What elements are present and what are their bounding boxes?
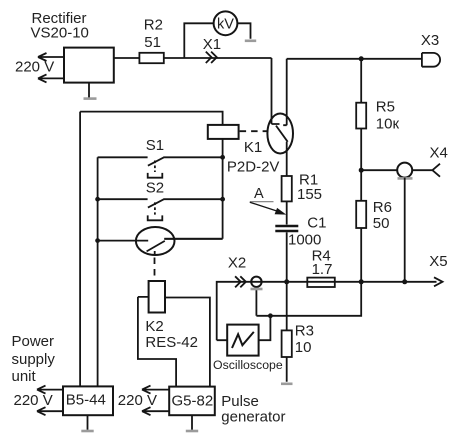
svg-text:K2: K2 [145,318,163,335]
svg-text:R6: R6 [373,199,392,216]
svg-text:C1: C1 [307,214,326,231]
svg-text:unit: unit [12,368,37,385]
svg-text:R2: R2 [144,16,163,33]
svg-text:10к: 10к [376,115,400,132]
svg-text:155: 155 [297,186,322,203]
svg-text:R5: R5 [376,99,395,116]
svg-text:VS20-10: VS20-10 [31,25,89,42]
svg-text:RES-42: RES-42 [145,334,198,351]
svg-text:X4: X4 [430,144,448,161]
svg-text:K1: K1 [244,139,262,156]
svg-text:51: 51 [144,34,161,51]
svg-text:G5-82: G5-82 [172,392,214,409]
svg-text:220 V: 220 V [118,392,157,409]
svg-text:kV: kV [217,17,234,33]
svg-text:220 V: 220 V [15,58,54,75]
svg-text:Power: Power [12,333,55,350]
svg-text:supply: supply [12,351,56,368]
svg-text:X1: X1 [203,36,221,53]
svg-text:X5: X5 [429,253,447,270]
svg-text:X2: X2 [228,254,246,271]
svg-text:Oscilloscope: Oscilloscope [213,358,283,372]
svg-text:220 V: 220 V [14,392,53,409]
svg-text:X3: X3 [421,32,439,49]
svg-text:generator: generator [221,408,285,425]
svg-text:1000: 1000 [288,232,321,249]
svg-text:S2: S2 [146,179,164,196]
svg-text:A: A [254,186,264,202]
svg-text:R3: R3 [295,322,314,339]
svg-text:10: 10 [295,339,312,356]
svg-text:B5-44: B5-44 [66,391,106,408]
svg-text:P2D-2V: P2D-2V [227,158,280,175]
svg-text:1.7: 1.7 [312,261,333,278]
svg-text:S1: S1 [146,137,164,154]
svg-text:50: 50 [373,215,390,232]
